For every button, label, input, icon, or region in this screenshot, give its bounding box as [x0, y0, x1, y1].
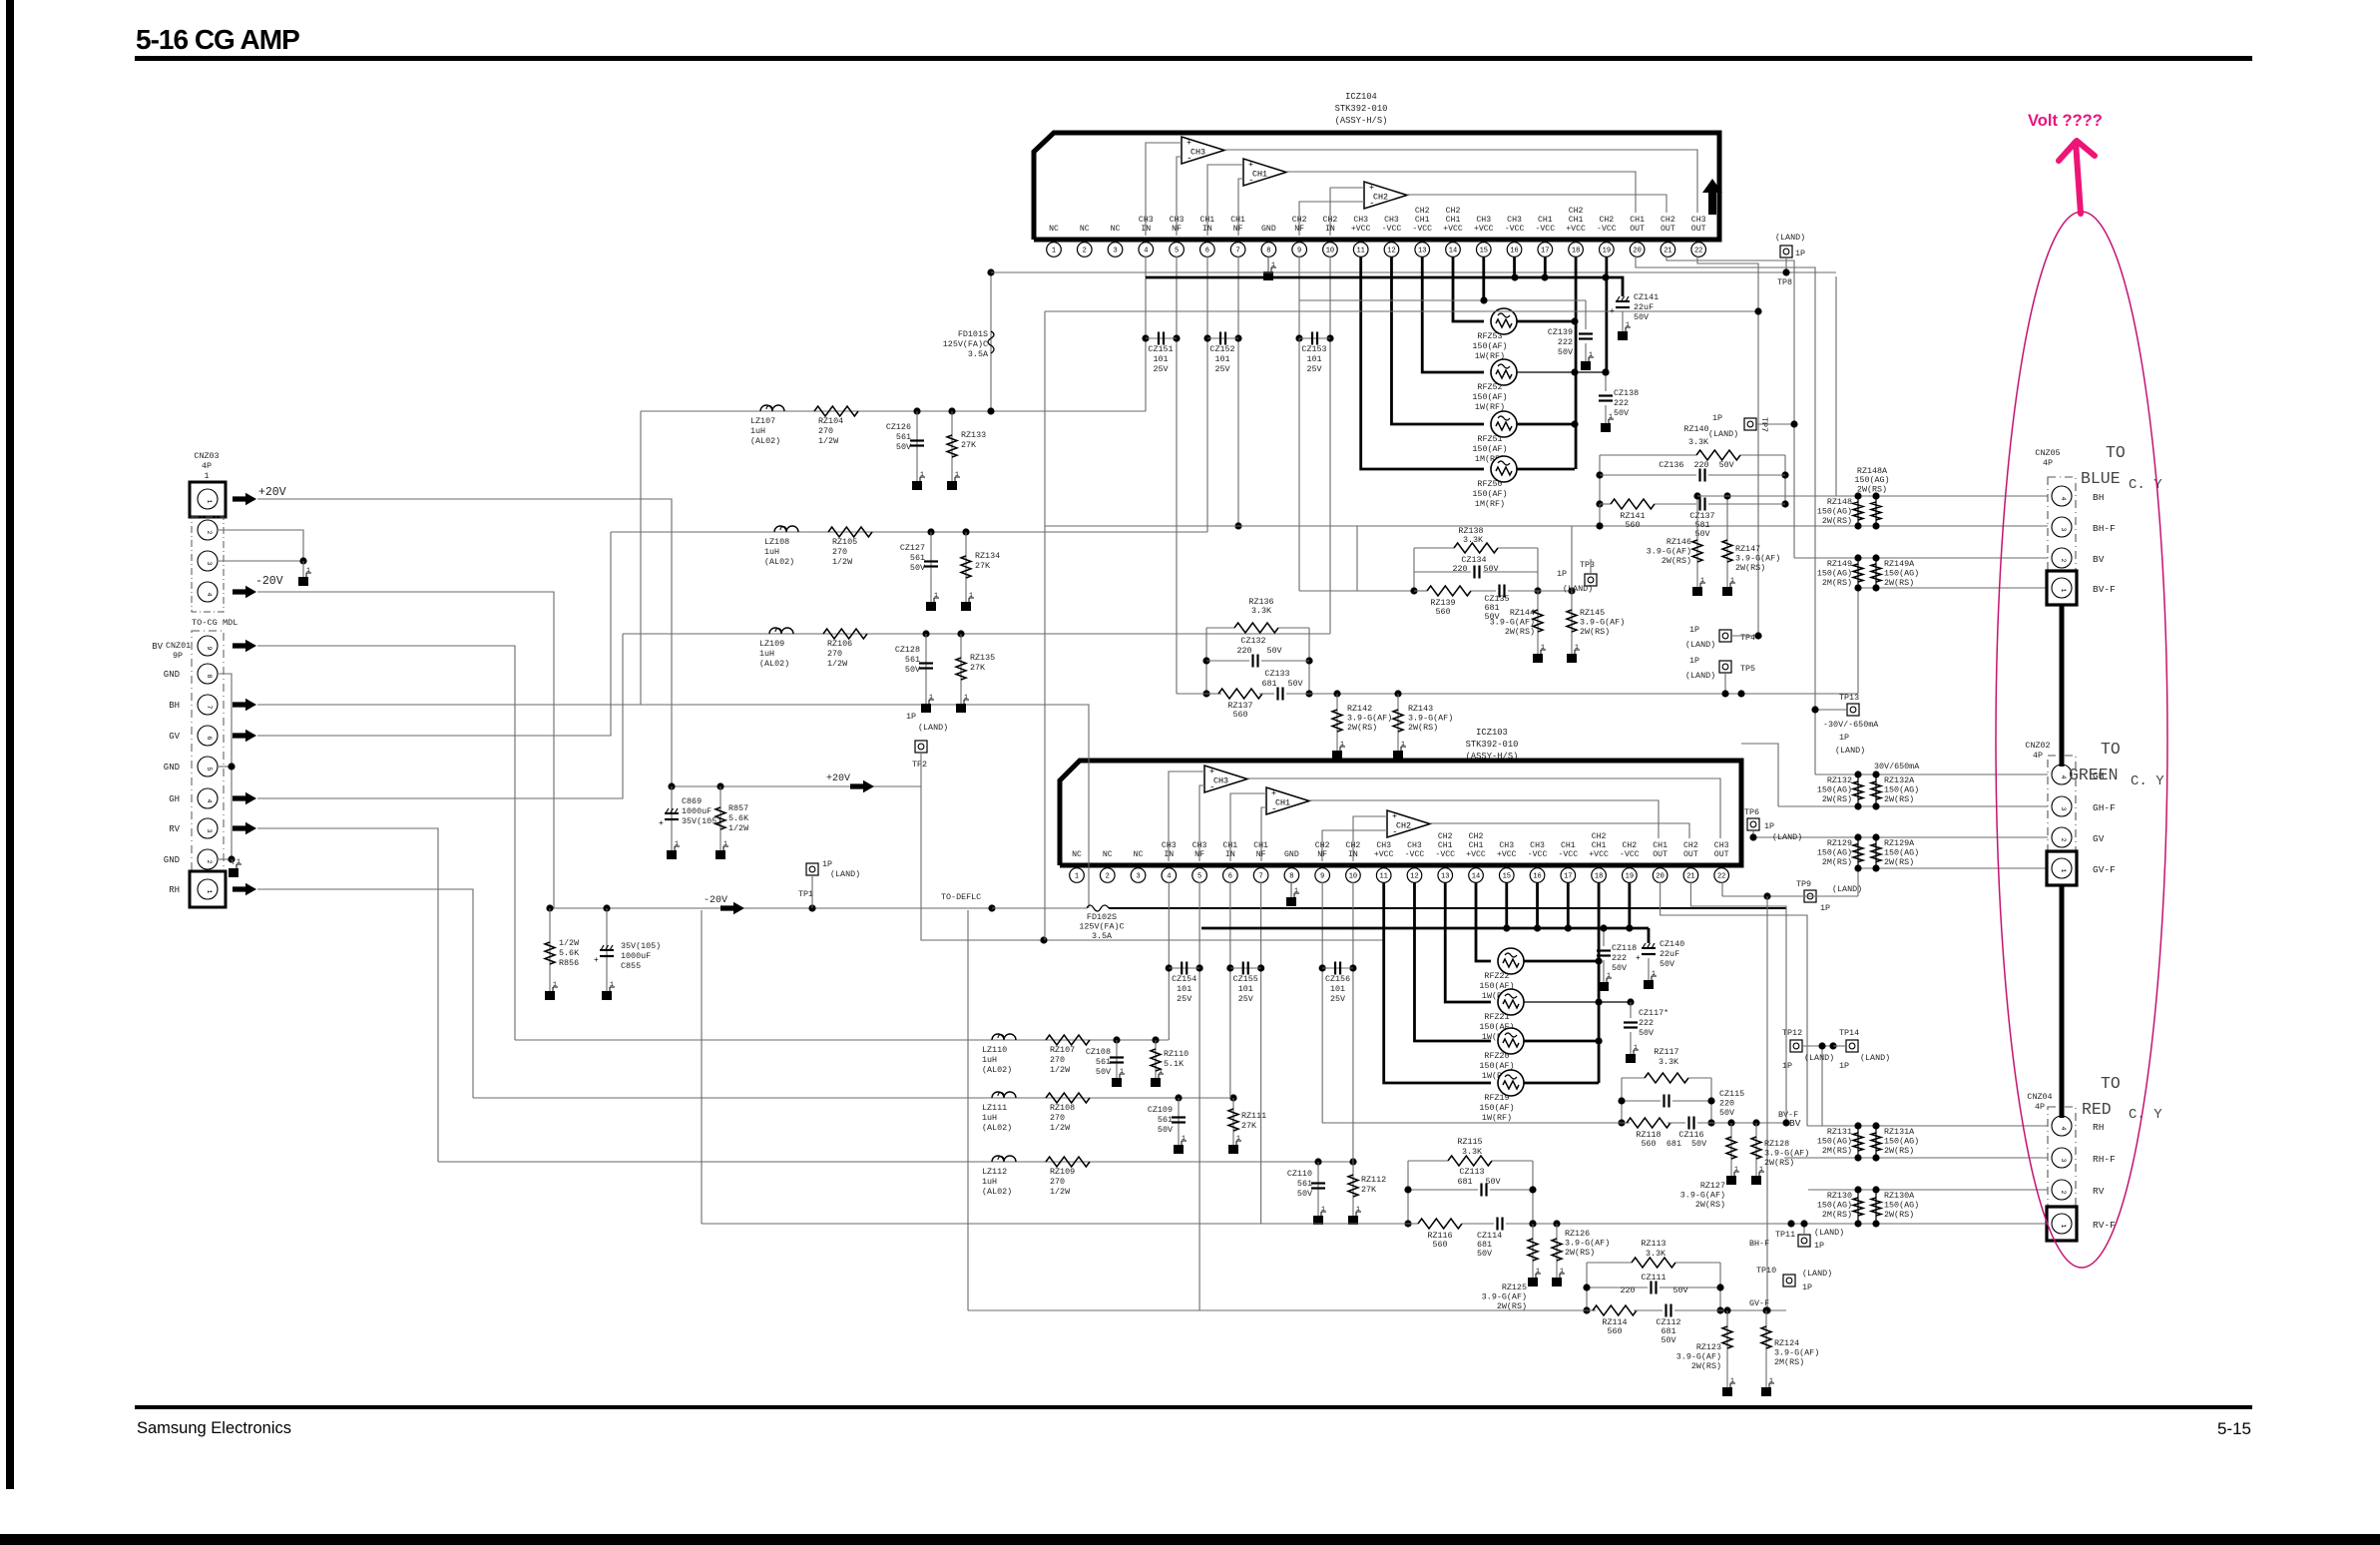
svg-text:561: 561	[896, 432, 911, 442]
svg-text:(LAND): (LAND)	[1563, 584, 1593, 594]
svg-text:OUT: OUT	[1630, 225, 1645, 234]
wire ICZ103 pin7 column	[1260, 882, 1262, 1224]
ground RZ111	[1228, 1145, 1238, 1154]
wire ICZ104 pin10 column	[1329, 257, 1331, 634]
svg-text:27K: 27K	[975, 561, 991, 571]
svg-text:1: 1	[1730, 577, 1734, 584]
svg-text:27K: 27K	[1361, 1185, 1377, 1195]
title rule	[135, 56, 2252, 61]
resistor RZ141 560 + capacitor CZ137 581 50V row	[1600, 503, 1611, 505]
svg-text:CH1: CH1	[1446, 216, 1461, 225]
resistor RZ130A 150(AG) 2W(RS)	[1875, 1190, 1877, 1224]
svg-text:CZ126: CZ126	[886, 422, 911, 432]
svg-text:RZ149: RZ149	[1827, 559, 1852, 569]
-20V rail row	[550, 907, 992, 909]
ground CZ117*	[1626, 1054, 1636, 1063]
resistor RZ115 3.3K	[1408, 1160, 1448, 1162]
arrow -20V at CNZ03 pin4	[233, 586, 256, 598]
svg-text:2M(RS): 2M(RS)	[1822, 1210, 1852, 1220]
svg-text:OUT: OUT	[1691, 225, 1706, 234]
connector CNZ03 pin1 box	[190, 482, 226, 517]
thick cable CNZ02 pin1 to CNZ04 pin4	[2060, 885, 2065, 1118]
svg-text:RZ105: RZ105	[832, 537, 857, 547]
op-amp ICZ103 CH1	[1266, 787, 1309, 814]
resistor RZ133 27K	[951, 411, 953, 481]
IC ICZ104 internal output wire CH3	[1224, 150, 1697, 213]
svg-text:3.9-G(AF): 3.9-G(AF)	[1347, 714, 1392, 724]
svg-text:1P: 1P	[1712, 413, 1722, 423]
IC ICZ104 internal input wire pin9 CH2-	[1299, 202, 1364, 236]
resistor RZ108 270 1/2W	[1046, 1093, 1090, 1103]
svg-text:CH1: CH1	[1253, 841, 1268, 850]
svg-text:CH1: CH1	[1199, 216, 1214, 225]
wire BV-F row y589	[1858, 587, 2048, 589]
resistor RZ129 150(AG) 2M(RS)	[1857, 837, 1859, 868]
svg-text:-VCC: -VCC	[1382, 225, 1402, 234]
svg-text:CZ108: CZ108	[1086, 1047, 1111, 1057]
svg-text:RFZ19: RFZ19	[1484, 1093, 1509, 1103]
wire LZ112 filter row	[438, 1161, 1353, 1163]
svg-text:1: 1	[1294, 887, 1298, 894]
svg-text:2W(RS): 2W(RS)	[1884, 1146, 1914, 1156]
svg-text:270: 270	[832, 547, 847, 557]
svg-text:RZ146: RZ146	[1666, 537, 1691, 547]
svg-text:101: 101	[1330, 984, 1345, 994]
svg-text:+VCC: +VCC	[1497, 850, 1517, 859]
svg-text:3: 3	[2060, 1158, 2067, 1162]
svg-text:50V: 50V	[1483, 564, 1498, 574]
wire ICZ104 pin9 column	[1298, 257, 1300, 338]
svg-text:13: 13	[1441, 873, 1449, 881]
svg-text:(LAND): (LAND)	[1835, 746, 1865, 756]
svg-text:CH1: CH1	[1438, 841, 1453, 850]
svg-text:5: 5	[1197, 873, 1201, 881]
connector CNZ03 pin 3	[198, 551, 218, 571]
IC ICZ103 internal output wire CH2	[1430, 823, 1689, 838]
svg-text:2M(RS): 2M(RS)	[1774, 1357, 1804, 1367]
resistor RZ127 3.9-G(AF) 2W(RS)	[1727, 1119, 1734, 1126]
wire ICZ104 pin15 stub	[1482, 257, 1485, 300]
svg-text:1P: 1P	[1689, 656, 1699, 666]
svg-text:2M(RS): 2M(RS)	[1822, 1146, 1852, 1156]
test point TP1 land	[806, 863, 818, 875]
capacitor CZ127 561 50V	[930, 532, 932, 602]
svg-text:+20V: +20V	[826, 773, 850, 784]
svg-text:50V: 50V	[1096, 1067, 1111, 1077]
annotation ellipse highlight	[1996, 212, 2167, 1268]
svg-text:CZ155: CZ155	[1233, 974, 1258, 984]
capacitor CZ151 101 25V	[1142, 334, 1149, 341]
svg-text:1: 1	[237, 858, 240, 865]
svg-text:7: 7	[206, 705, 213, 709]
resistor RZ116 560 + capacitor CZ114 681 50V row	[1408, 1223, 1418, 1225]
svg-text:RZ130A: RZ130A	[1884, 1191, 1915, 1201]
thermistor ladder pins 11-14 ICZ103	[1476, 882, 1491, 961]
wire RH-F row y1160	[1784, 1157, 2048, 1159]
test point TP13 land	[1847, 704, 1859, 716]
svg-text:+: +	[1271, 788, 1276, 798]
svg-text:LZ107: LZ107	[750, 416, 775, 426]
svg-text:3: 3	[206, 561, 213, 565]
svg-text:1: 1	[969, 592, 973, 599]
svg-text:(LAND): (LAND)	[830, 869, 860, 879]
svg-text:RZ108: RZ108	[1050, 1103, 1075, 1113]
svg-text:10: 10	[1349, 873, 1357, 881]
svg-text:1000uF: 1000uF	[682, 806, 712, 816]
wire RH from CNZ01.1 to LZ111 row	[257, 889, 473, 1098]
svg-text:CZ127: CZ127	[900, 543, 925, 553]
inductor LZ107 1uH (AL02)	[760, 405, 784, 411]
svg-text:Samsung Electronics: Samsung Electronics	[137, 1419, 291, 1437]
svg-text:1P: 1P	[1814, 1241, 1824, 1251]
wire long riser x1771 down to GV-F bottom row	[1766, 896, 1768, 1310]
svg-text:CH1: CH1	[1275, 798, 1290, 808]
svg-text:CH3: CH3	[1384, 216, 1399, 225]
svg-text:101: 101	[1153, 354, 1168, 364]
wire long BH-F row y527	[1045, 525, 2048, 527]
ground RZ110	[1151, 1078, 1161, 1087]
svg-text:6: 6	[1205, 248, 1209, 256]
svg-text:CH3: CH3	[1476, 216, 1491, 225]
svg-text:NF: NF	[1233, 225, 1243, 234]
svg-text:11: 11	[1379, 873, 1387, 881]
svg-text:1uH: 1uH	[982, 1113, 997, 1123]
svg-text:RZ131A: RZ131A	[1884, 1127, 1915, 1137]
connector CNZ05 pin 3 net BH-F	[2052, 517, 2072, 537]
resistor RZ118 560 + capacitor CZ116 681 50V row BV	[1322, 1122, 1630, 1124]
resistor R857 5.6K 1/2W	[719, 786, 721, 850]
svg-text:2: 2	[2060, 1190, 2067, 1194]
svg-text:TP11: TP11	[1775, 1230, 1795, 1240]
ground CNZ01 GND pins	[229, 868, 238, 877]
svg-text:CH3: CH3	[1499, 841, 1514, 850]
svg-text:1P: 1P	[1802, 1283, 1812, 1292]
svg-text:RZ125: RZ125	[1502, 1283, 1527, 1292]
svg-text:1: 1	[2060, 1224, 2067, 1228]
svg-text:12: 12	[1387, 248, 1395, 256]
svg-text:560: 560	[1607, 1326, 1622, 1336]
svg-text:(ASSY-H/S): (ASSY-H/S)	[1335, 116, 1388, 126]
capacitor CZ113 681 50V	[1408, 1189, 1478, 1191]
network RZ138/CZ134/RZ139/CZ135 box	[1413, 548, 1415, 591]
svg-text:9: 9	[206, 646, 213, 650]
wire thick +VCC bus ICZ103	[1201, 927, 1649, 930]
svg-text:5.6K: 5.6K	[559, 948, 580, 958]
IC ICZ104 internal output wire CH1	[1286, 172, 1636, 213]
wire RZ140 box stubs	[1599, 504, 1601, 526]
connector CNZ05 pin 4 net BH	[2052, 486, 2072, 506]
svg-text:220: 220	[1620, 1286, 1635, 1295]
svg-text:CZ111: CZ111	[1641, 1273, 1666, 1283]
ground R856	[545, 991, 555, 1000]
resistor RZ113 3.3K	[1587, 1262, 1632, 1264]
wire RH row y1128	[1807, 1125, 2048, 1127]
svg-text:150(AG): 150(AG)	[1884, 1137, 1919, 1147]
IC ICZ103 internal input wire pin10	[1353, 816, 1387, 861]
svg-text:NC: NC	[1134, 850, 1144, 859]
wire long feedback row y695	[1309, 693, 1858, 695]
inductor LZ109 1uH (AL02)	[769, 628, 793, 634]
svg-text:RH-F: RH-F	[2093, 1154, 2116, 1165]
svg-text:1uH: 1uH	[750, 426, 765, 436]
svg-text:27K: 27K	[1241, 1121, 1257, 1131]
svg-text:7: 7	[1259, 873, 1263, 881]
svg-text:CZ133: CZ133	[1264, 669, 1289, 679]
svg-text:20: 20	[1656, 873, 1664, 881]
ground CZ141	[1618, 331, 1628, 340]
network RZ136/CZ132/CZ133/RZ137 box	[1205, 628, 1207, 694]
svg-text:1P: 1P	[1557, 569, 1567, 579]
svg-text:RZ140: RZ140	[1683, 424, 1708, 434]
svg-text:+VCC: +VCC	[1351, 225, 1371, 234]
svg-text:LZ112: LZ112	[982, 1167, 1007, 1177]
svg-text:RZ145: RZ145	[1580, 608, 1605, 618]
svg-text:CH3: CH3	[1170, 216, 1185, 225]
svg-text:BH-F: BH-F	[2093, 523, 2116, 534]
ground CZ109	[1174, 1145, 1184, 1154]
svg-text:17: 17	[1564, 873, 1572, 881]
svg-text:3.3K: 3.3K	[1688, 437, 1709, 447]
svg-text:2W(RS): 2W(RS)	[1565, 1248, 1595, 1258]
svg-text:+VCC: +VCC	[1374, 850, 1394, 859]
svg-text:RZ104: RZ104	[818, 416, 843, 426]
ground RZ146	[1692, 587, 1702, 596]
svg-text:(AL02): (AL02)	[982, 1065, 1012, 1075]
svg-text:2W(RS): 2W(RS)	[1662, 556, 1691, 566]
svg-text:2W(RS): 2W(RS)	[1691, 1361, 1721, 1371]
capacitor CZ132 220 50V	[1206, 660, 1249, 662]
+20V node row	[672, 785, 921, 787]
svg-text:CH1: CH1	[1222, 841, 1237, 850]
svg-text:50V: 50V	[1672, 1286, 1687, 1295]
thermistor RFZ19 150(AF) 1W(RF)	[1498, 1070, 1524, 1096]
svg-text:1: 1	[964, 694, 968, 701]
svg-text:GV-F: GV-F	[2093, 864, 2116, 875]
svg-text:1W(RF): 1W(RF)	[1475, 402, 1505, 412]
svg-text:BH: BH	[169, 701, 180, 711]
svg-text:1: 1	[206, 889, 213, 893]
svg-text:CH3: CH3	[1376, 841, 1391, 850]
svg-text:18: 18	[1595, 873, 1603, 881]
svg-text:CZ140: CZ140	[1660, 939, 1684, 949]
svg-text:CH2: CH2	[1346, 841, 1361, 850]
node junction CZ126	[913, 407, 920, 414]
svg-text:150(AF): 150(AF)	[1472, 489, 1507, 499]
svg-text:270: 270	[827, 649, 842, 659]
svg-text:101: 101	[1306, 354, 1321, 364]
test point TP9 land	[1804, 890, 1816, 902]
ground CZ110	[1313, 1216, 1323, 1225]
node junction CZ109	[1175, 1094, 1182, 1101]
svg-text:(LAND): (LAND)	[1860, 1053, 1890, 1063]
svg-text:BV: BV	[152, 642, 163, 652]
svg-text:1: 1	[206, 499, 213, 503]
svg-text:RZ132A: RZ132A	[1884, 775, 1915, 785]
svg-text:3.9-G(AF): 3.9-G(AF)	[1408, 714, 1453, 724]
wire ICZ104 pin7 column	[1237, 257, 1239, 526]
svg-text:50V: 50V	[1158, 1125, 1173, 1135]
IC ICZ103 internal input wire pin7	[1261, 807, 1266, 861]
capacitor CZ126 561 50V	[916, 411, 918, 481]
test point TP4 land	[1719, 630, 1731, 642]
svg-text:560: 560	[1232, 710, 1247, 720]
ground RZ128	[1751, 1176, 1761, 1185]
svg-text:CH2: CH2	[1446, 207, 1461, 216]
svg-text:1: 1	[2060, 588, 2067, 592]
svg-text:1: 1	[920, 471, 924, 478]
resistor RZ106 270 1/2W	[823, 629, 867, 639]
thermistor RFZ22 150(AF) 1W(RF)	[1498, 948, 1524, 974]
svg-text:CH2: CH2	[1683, 841, 1698, 850]
svg-text:50V: 50V	[1660, 959, 1674, 969]
svg-text:150(AG): 150(AG)	[1884, 785, 1919, 795]
svg-text:12: 12	[1410, 873, 1418, 881]
svg-text:-VCC: -VCC	[1528, 850, 1548, 859]
test point TP6 land	[1747, 818, 1759, 830]
capacitor CZ154 101 25V	[1166, 964, 1173, 971]
svg-text:3.3K: 3.3K	[1251, 606, 1272, 616]
svg-text:NC: NC	[1080, 225, 1090, 234]
svg-text:2: 2	[206, 530, 213, 534]
svg-text:CH3: CH3	[1139, 216, 1154, 225]
svg-text:3: 3	[1113, 248, 1117, 256]
wire RH riser to TP12/TP14 row	[1821, 1046, 1823, 1126]
svg-text:CZ154: CZ154	[1172, 974, 1196, 984]
connector CNZ03 pins2-4 dashed outline	[192, 517, 224, 612]
svg-text:(LAND): (LAND)	[1802, 1269, 1832, 1279]
svg-text:5.6K: 5.6K	[728, 813, 749, 823]
svg-text:IN: IN	[1225, 850, 1235, 859]
ground RZ123	[1722, 1387, 1732, 1396]
svg-text:18: 18	[1572, 248, 1580, 256]
resistor RZ139 560 + capacitor CZ135 681 50V row	[1299, 590, 1414, 592]
connector CNZ05 outline	[2048, 477, 2076, 589]
op-amp ICZ104 CH1	[1243, 159, 1286, 186]
wire ICZ103 pin19 to bus	[1628, 882, 1631, 928]
svg-text:2W(RS): 2W(RS)	[1735, 563, 1765, 573]
connector CNZ02 outline	[2048, 756, 2076, 869]
connector CNZ04 pin 2 net RV	[2052, 1180, 2072, 1200]
fuse FD102S 125V(FA)C 3.5A	[1087, 905, 1109, 911]
svg-text:LZ111: LZ111	[982, 1103, 1007, 1113]
test point TP2 land	[915, 741, 927, 753]
svg-text:RV: RV	[2093, 1186, 2105, 1197]
svg-text:NC: NC	[1049, 225, 1059, 234]
svg-text:5-15: 5-15	[2217, 1419, 2251, 1438]
svg-text:20: 20	[1633, 248, 1641, 256]
svg-text:1: 1	[553, 981, 557, 988]
svg-text:4P: 4P	[2035, 1102, 2045, 1112]
svg-text:2W(RS): 2W(RS)	[1884, 794, 1914, 804]
svg-text:(AL02): (AL02)	[764, 557, 794, 567]
svg-text:561: 561	[1096, 1057, 1111, 1067]
svg-text:8: 8	[1289, 873, 1293, 881]
capacitor CZ118 222 50V	[1603, 928, 1605, 946]
svg-text:50V: 50V	[1614, 408, 1629, 418]
svg-text:OUT: OUT	[1714, 850, 1729, 859]
svg-text:CH2: CH2	[1438, 832, 1453, 841]
svg-text:50V: 50V	[1612, 963, 1627, 973]
svg-text:CH1: CH1	[1538, 216, 1553, 225]
wire GV-F row y870	[1858, 867, 2048, 869]
svg-text:3.9-G(AF): 3.9-G(AF)	[1764, 1149, 1809, 1159]
wire pin17 to bus	[1544, 257, 1547, 277]
svg-text:CZ113: CZ113	[1459, 1167, 1484, 1177]
wire BH from CNZ01.7 to LZ107 row	[257, 411, 641, 705]
svg-text:50V: 50V	[1634, 312, 1649, 322]
svg-text:CH1: CH1	[1415, 216, 1430, 225]
svg-text:GH: GH	[169, 794, 180, 804]
svg-text:-VCC: -VCC	[1558, 850, 1578, 859]
resistor RZ123 3.9-G(AF) 2W(RS)	[1723, 1306, 1730, 1313]
connector CNZ02 pin 2 net GV	[2052, 827, 2072, 847]
inductor LZ110 1uH (AL02)	[992, 1034, 1016, 1040]
svg-text:CH2: CH2	[1373, 193, 1388, 203]
svg-text:222: 222	[1558, 337, 1573, 347]
svg-text:C869: C869	[682, 796, 702, 806]
resistor RZ110 5.1K	[1155, 1040, 1157, 1078]
svg-text:CH2: CH2	[1469, 832, 1484, 841]
svg-text:R856: R856	[559, 958, 579, 968]
svg-text:1: 1	[1401, 741, 1405, 748]
svg-text:3.9-G(AF): 3.9-G(AF)	[1676, 1352, 1721, 1362]
svg-text:RZ107: RZ107	[1050, 1045, 1075, 1055]
svg-text:1: 1	[1356, 1206, 1360, 1213]
wire CNZ03 pin2/pin3 to ground	[219, 530, 303, 561]
wire ICZ103 pin10 column	[1352, 882, 1354, 1162]
arrow +20V mid	[850, 780, 874, 792]
svg-text:CH3: CH3	[1213, 776, 1228, 786]
svg-text:LZ109: LZ109	[759, 639, 784, 649]
wire branch y706 to fuse row	[641, 705, 1089, 908]
svg-text:RZ124: RZ124	[1774, 1338, 1799, 1348]
ground CZ139	[1581, 361, 1591, 370]
svg-text:CH2: CH2	[1415, 207, 1430, 216]
svg-text:1: 1	[1769, 1377, 1773, 1384]
svg-text:RZ129A: RZ129A	[1884, 838, 1915, 848]
svg-text:CNZ04: CNZ04	[2027, 1092, 2052, 1102]
svg-text:RZ147: RZ147	[1735, 544, 1760, 554]
arrow -20V mid	[720, 902, 744, 914]
svg-text:CH2: CH2	[1592, 832, 1607, 841]
svg-text:NF: NF	[1172, 225, 1182, 234]
svg-text:4: 4	[2060, 1126, 2067, 1130]
svg-text:RZ129: RZ129	[1827, 838, 1852, 848]
connector CNZ02 pin 4 net GH	[2052, 765, 2072, 784]
svg-text:(LAND): (LAND)	[1772, 832, 1802, 842]
wire ICZ104 pin5 column	[1176, 257, 1178, 694]
svg-text:TP5: TP5	[1740, 664, 1755, 674]
svg-text:3.9-G(AF): 3.9-G(AF)	[1482, 1292, 1527, 1302]
resistor RZ130 150(AG) 2M(RS)	[1857, 1190, 1859, 1224]
svg-text:1: 1	[1575, 644, 1579, 651]
wire riser x1047	[1044, 311, 1046, 940]
connector CNZ03 pin 2	[198, 520, 218, 540]
svg-text:25V: 25V	[1306, 364, 1321, 374]
svg-text:2W(RS): 2W(RS)	[1857, 484, 1887, 494]
ground CNZ03 pins 2-3	[298, 577, 308, 586]
thermistor RFZ51 150(AF) 1M(RF)	[1491, 411, 1517, 437]
svg-text:+VCC: +VCC	[1566, 225, 1586, 234]
svg-text:CH2: CH2	[1661, 216, 1675, 225]
resistor RZ126 3.9-G(AF) 2W(RS)	[1553, 1220, 1560, 1227]
resistor RZ144 3.9-G(AF) 2W(RS)	[1537, 591, 1539, 654]
svg-text:25V: 25V	[1153, 364, 1168, 374]
capacitor CZ115 220 50V	[1622, 1100, 1661, 1102]
svg-text:TP13: TP13	[1839, 693, 1859, 703]
IC ICZ103 internal input wire pin6	[1230, 793, 1266, 861]
svg-text:22uF: 22uF	[1660, 949, 1679, 959]
